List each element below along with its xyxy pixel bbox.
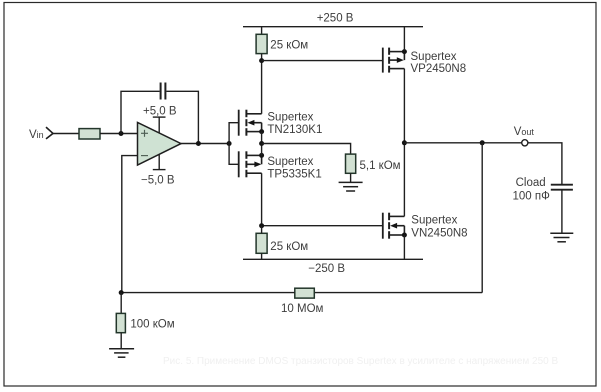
power rail −250 В — [243, 259, 423, 275]
resistor 100 кОм — [116, 313, 174, 332]
wire VP source to +250 rail — [403, 27, 405, 52]
resistor 25 кОм (upper) — [256, 34, 308, 53]
node TN source — [259, 129, 264, 134]
wire node to 25 кОм lower — [261, 226, 263, 234]
node feedback branch — [480, 140, 485, 145]
svg-text:5,1 кОм: 5,1 кОм — [360, 160, 401, 172]
wire gate link TN/TP — [229, 123, 239, 165]
ground under 100 кОм — [109, 349, 134, 357]
wire Cload to ground — [561, 190, 563, 234]
svg-text:10 МОм: 10 МОм — [281, 303, 324, 315]
svg-text:Vout: Vout — [514, 126, 535, 138]
capacitor feedback C1 — [161, 83, 166, 100]
wire op-amp inverting input down — [122, 156, 138, 293]
svg-text:VP2450N8: VP2450N8 — [411, 63, 467, 75]
op-amp U1 — [138, 122, 182, 165]
wire 100 кОм to ground — [120, 333, 122, 349]
node feedback junction — [119, 290, 124, 295]
wire Vout to Cload — [528, 143, 562, 185]
svg-text:Supertex: Supertex — [267, 156, 313, 168]
wire mid node to 5,1 кОм — [262, 144, 351, 155]
node VN source — [402, 233, 407, 238]
wire TN drain up — [261, 61, 263, 114]
wire feedback capacitor right leg — [166, 91, 198, 143]
wire Rin to non-inverting input node — [100, 133, 138, 135]
terminal Vout — [514, 126, 535, 146]
wire feedback from Vout node down — [481, 143, 483, 293]
svg-text:25 кОм: 25 кОм — [270, 241, 308, 253]
node VP gate drive — [259, 58, 264, 63]
power rail +250 В — [243, 13, 423, 27]
node output — [402, 140, 407, 145]
wire feedback right segment — [314, 292, 482, 294]
svg-text:+5,0 В: +5,0 В — [143, 105, 177, 117]
node VN gate drive — [259, 223, 264, 228]
svg-text:+250 В: +250 В — [317, 13, 354, 25]
wire source chain — [261, 132, 263, 156]
node VP source — [402, 49, 407, 54]
wire feedback capacitor left leg — [121, 91, 160, 133]
ground under 5,1 кОм — [339, 182, 363, 191]
wire 25 кОм to VP gate node — [261, 54, 263, 61]
node TP source — [259, 153, 264, 158]
node mid to load resistor — [259, 141, 264, 146]
svg-text:−250 В: −250 В — [308, 263, 345, 275]
svg-text:Cload: Cload — [516, 177, 546, 189]
wire VP drain to output — [403, 69, 405, 143]
wire VN drain to output — [403, 143, 405, 217]
svg-text:25 кОм: 25 кОм — [270, 40, 308, 52]
transistor TP5335K1 — [239, 151, 322, 180]
wire output to Vout terminal — [404, 142, 521, 144]
ground under Cload — [550, 233, 573, 242]
supply +5,0 В — [143, 105, 177, 133]
wire VN source to −250 rail — [403, 235, 405, 259]
transistor VP2450N8 — [383, 48, 466, 76]
svg-text:TP5335K1: TP5335K1 — [267, 169, 321, 181]
svg-text:TN2130K1: TN2130K1 — [267, 124, 322, 136]
wire gate to VP2450N8 — [262, 60, 383, 62]
node at op-amp + input — [119, 131, 124, 136]
resistor 10 МОм — [281, 288, 324, 315]
wire TP drain down — [261, 173, 263, 226]
node gate drive — [227, 141, 232, 146]
wire feedback left segment — [121, 292, 295, 294]
svg-text:Vin: Vin — [29, 129, 44, 141]
wire rail to 25 кОм top — [261, 27, 263, 35]
wire 5,1 кОм to ground — [350, 173, 352, 182]
svg-text:100 кОм: 100 кОм — [130, 319, 174, 331]
supply −5,0 В — [141, 154, 175, 186]
wire junction to 100 кОм — [120, 293, 122, 314]
svg-text:Supertex: Supertex — [411, 215, 457, 227]
resistor Rin — [79, 129, 100, 139]
wire Vin to Rin — [53, 133, 79, 135]
svg-text:Supertex: Supertex — [411, 51, 457, 63]
transistor TN2130K1 — [239, 110, 323, 136]
svg-text:VN2450N8: VN2450N8 — [411, 227, 467, 239]
svg-text:100 пФ: 100 пФ — [513, 190, 551, 202]
transistor VN2450N8 — [383, 213, 468, 240]
wire 25 кОм lower to rail — [261, 253, 263, 259]
svg-text:Supertex: Supertex — [267, 111, 313, 123]
svg-text:−5,0 В: −5,0 В — [141, 174, 175, 186]
wire op-amp output — [181, 143, 229, 145]
capacitor Cload 100 пФ — [513, 177, 573, 202]
resistor 5,1 кОм — [346, 154, 401, 173]
svg-text:Рис. 5. Применение DMOS транзи: Рис. 5. Применение DMOS транзисторов Sup… — [163, 356, 558, 367]
wire lower gate drive — [262, 225, 383, 227]
resistor 25 кОм (lower) — [256, 233, 308, 253]
node feedback tap — [196, 141, 201, 146]
input terminal Vin — [46, 127, 53, 139]
